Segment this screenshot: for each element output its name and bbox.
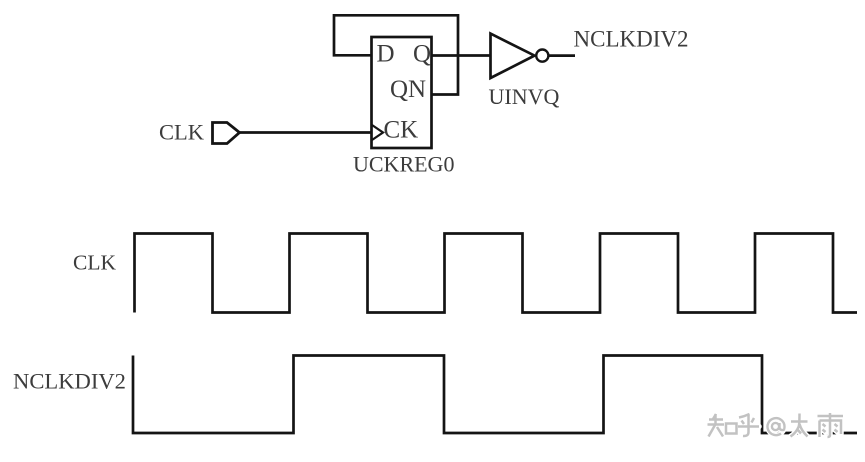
char hu [738, 414, 759, 436]
svg-text:UCKREG0: UCKREG0 [353, 152, 454, 177]
svg-text:QN: QN [390, 76, 426, 103]
char tai halo [791, 414, 808, 437]
wire Q to inverter [432, 54, 491, 57]
char yu halo [818, 413, 844, 437]
inverter bubble [536, 50, 548, 62]
wire inverter output [549, 54, 575, 57]
clock input wedge [372, 125, 383, 140]
port CLK pentagon [213, 123, 240, 144]
svg-text:CK: CK [384, 117, 419, 144]
inverter U1 triangle [491, 34, 535, 78]
watermark zhihu taiyu (drawn strokes, white halo pass) [708, 413, 844, 437]
NCLKDIV2 waveform trace [133, 356, 857, 434]
watermark @ halo [768, 418, 785, 435]
watermark zhihu taiyu (gray strokes) [708, 413, 844, 437]
svg-text:Q: Q [413, 41, 431, 68]
wire CLK to CK [240, 131, 373, 134]
char zhi [708, 414, 725, 437]
svg-text:UINVQ: UINVQ [489, 84, 560, 109]
char hu halo [738, 414, 759, 436]
wire feedback loop QN to D [334, 15, 458, 94]
watermark @ glyph [768, 418, 785, 435]
svg-text:NCLKDIV2: NCLKDIV2 [574, 27, 689, 52]
char yu [818, 413, 844, 437]
svg-text:NCLKDIV2: NCLKDIV2 [13, 369, 126, 394]
CLK waveform trace [135, 234, 858, 313]
svg-text:CLK: CLK [159, 120, 205, 145]
svg-text:D: D [377, 41, 395, 68]
svg-text:CLK: CLK [73, 251, 116, 275]
char tai [791, 414, 808, 437]
flip-flop U0 body [372, 37, 432, 148]
